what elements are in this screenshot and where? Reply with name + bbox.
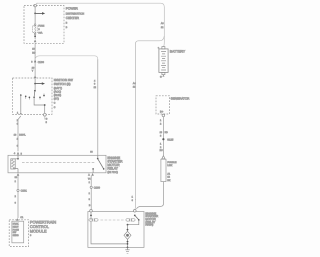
svg-text:8: 8 bbox=[31, 61, 33, 64]
svg-text:1: 1 bbox=[160, 143, 162, 146]
svg-text:1: 1 bbox=[89, 181, 91, 184]
label ENGINE STARTER MOTOR RELAY bbox=[107, 156, 123, 174]
label POWERTRAIN CONTROL MODULE bbox=[30, 220, 56, 238]
svg-text:(ST): (ST) bbox=[54, 98, 59, 101]
label IGNITION SWITCH bbox=[54, 78, 73, 109]
node junction with arrow bbox=[34, 82, 45, 85]
pin fusible link entry bbox=[162, 156, 165, 159]
svg-text:6: 6 bbox=[132, 199, 134, 202]
svg-text:G: G bbox=[160, 75, 162, 78]
svg-text:NEUT: NEUT bbox=[13, 225, 20, 228]
wire PDC to ignition switch bbox=[34, 43, 36, 76]
relay switch bbox=[90, 151, 104, 173]
wire feed down to relay contact bbox=[97, 59, 99, 155]
relay linkage bbox=[22, 162, 96, 164]
svg-text:LINK: LINK bbox=[167, 164, 172, 167]
svg-text:BATTERY: BATTERY bbox=[170, 49, 186, 53]
svg-text:3: 3 bbox=[38, 28, 40, 31]
svg-text:RD: RD bbox=[165, 131, 169, 134]
svg-text:DISTRIBUTION: DISTRIBUTION bbox=[66, 12, 84, 15]
svg-text:(BATT): (BATT) bbox=[54, 87, 62, 90]
wire fuse to PDC exit bbox=[34, 35, 36, 39]
node terminal circle PDC B+ bbox=[34, 4, 37, 7]
svg-text:1: 1 bbox=[15, 180, 17, 183]
wire to fuse bbox=[34, 13, 36, 23]
engine starter motor relay box bbox=[8, 155, 106, 173]
node connector C101 bbox=[17, 189, 19, 191]
svg-text:2: 2 bbox=[160, 146, 162, 149]
svg-text:C100: C100 bbox=[94, 187, 101, 190]
svg-text:GENERATOR: GENERATOR bbox=[171, 97, 191, 101]
svg-text:A1: A1 bbox=[167, 173, 170, 176]
node junction with arrow bbox=[34, 12, 45, 15]
svg-text:C101: C101 bbox=[21, 190, 28, 193]
wire contact ST to exit bbox=[20, 95, 22, 112]
switch blade bbox=[33, 91, 36, 97]
fuse F? bbox=[33, 24, 38, 35]
pin exit terminal left bbox=[20, 112, 22, 114]
svg-text:20: 20 bbox=[32, 66, 35, 69]
ground bbox=[125, 247, 129, 253]
starter switch blade bbox=[134, 215, 136, 217]
svg-text:SENS: SENS bbox=[13, 234, 19, 237]
switch contacts bbox=[25, 96, 27, 98]
svg-text:FUSIBLE: FUSIBLE bbox=[167, 161, 177, 164]
svg-text:2: 2 bbox=[15, 195, 17, 198]
node terminal circle exit bbox=[43, 113, 46, 116]
svg-text:8: 8 bbox=[30, 234, 32, 237]
wire generator to splice bbox=[162, 117, 164, 156]
node terminal circle generator bbox=[162, 114, 165, 117]
wire contact to C exit bbox=[34, 98, 45, 113]
svg-text:0: 0 bbox=[94, 83, 96, 86]
node connector C100 bbox=[34, 60, 36, 63]
wire solenoid return bbox=[91, 222, 128, 244]
pin entry terminal relay bbox=[17, 152, 20, 155]
wire PDC internal bbox=[34, 7, 36, 13]
svg-text:T4: T4 bbox=[88, 178, 91, 181]
svg-text:BK: BK bbox=[167, 179, 170, 182]
svg-text:1: 1 bbox=[160, 119, 162, 122]
svg-text:5: 5 bbox=[21, 152, 23, 155]
battery negative stub bbox=[162, 75, 164, 77]
svg-text:8: 8 bbox=[160, 135, 162, 138]
PCM pin block bbox=[12, 221, 24, 243]
powertrain control module box bbox=[9, 220, 28, 247]
svg-text:POWER: POWER bbox=[66, 7, 79, 11]
svg-text:5: 5 bbox=[46, 121, 48, 124]
svg-text:16: 16 bbox=[160, 131, 163, 134]
svg-text:A: A bbox=[88, 174, 90, 177]
svg-text:PARK: PARK bbox=[13, 223, 19, 226]
node splice S125 bbox=[162, 138, 164, 140]
svg-text:B: B bbox=[66, 22, 68, 25]
label PCM pin functions bbox=[13, 223, 20, 238]
wire ignition to relay bbox=[18, 116, 21, 151]
svg-text:CENTER: CENTER bbox=[66, 16, 80, 20]
wire relay to PCM bbox=[17, 176, 19, 218]
solenoid linkage bbox=[101, 219, 125, 221]
svg-text:POSN: POSN bbox=[13, 228, 20, 231]
node terminal circle B+ bbox=[134, 210, 137, 213]
solenoid contact windings bbox=[126, 218, 135, 222]
wire battery feed top bbox=[37, 3, 165, 46]
svg-text:B: B bbox=[89, 204, 91, 207]
svg-text:FUSE: FUSE bbox=[38, 25, 44, 28]
svg-text:12: 12 bbox=[94, 86, 97, 89]
ignition switch box bbox=[13, 78, 53, 114]
pin exit terminal PDC bbox=[34, 39, 37, 42]
node connector C100 starter feed bbox=[90, 186, 92, 188]
svg-text:HIGH): HIGH) bbox=[145, 223, 153, 227]
svg-text:C1: C1 bbox=[20, 216, 24, 219]
svg-text:12: 12 bbox=[161, 26, 164, 29]
generator box bbox=[156, 96, 170, 114]
wire long feed into starter bbox=[134, 199, 137, 209]
svg-text:MODULE: MODULE bbox=[30, 229, 47, 234]
svg-text:DB/YL: DB/YL bbox=[19, 134, 26, 137]
wire relay to starter solenoid bbox=[90, 176, 92, 210]
wire branch to relay contact bbox=[35, 56, 98, 60]
svg-text:4: 4 bbox=[14, 152, 16, 155]
svg-text:0: 0 bbox=[17, 122, 19, 125]
svg-text:4: 4 bbox=[94, 79, 96, 82]
svg-text:2: 2 bbox=[160, 123, 162, 126]
wire entry bbox=[34, 78, 36, 84]
svg-text:1: 1 bbox=[89, 192, 91, 195]
svg-text:RELAY: RELAY bbox=[107, 167, 118, 171]
fusible link bbox=[161, 159, 166, 181]
node junction dot bbox=[34, 35, 36, 37]
svg-text:SW: SW bbox=[13, 231, 17, 234]
svg-text:SWITCH (B): SWITCH (B) bbox=[54, 82, 71, 86]
motor M bbox=[124, 231, 131, 239]
label POWER DISTRIBUTION CENTER bbox=[66, 7, 84, 30]
svg-text:C100: C100 bbox=[38, 61, 45, 64]
svg-text:B: B bbox=[66, 26, 68, 29]
node terminal circle solenoid bbox=[90, 210, 93, 213]
svg-text:A0: A0 bbox=[161, 22, 164, 25]
pin exit relay contact bbox=[91, 173, 94, 176]
pin entry PCM bbox=[16, 218, 19, 221]
svg-text:30A: 30A bbox=[38, 31, 42, 34]
svg-text:BU: BU bbox=[160, 149, 163, 152]
wire to wiper bbox=[34, 84, 36, 91]
svg-text:2: 2 bbox=[17, 138, 19, 141]
power distribution center box bbox=[24, 6, 64, 44]
battery bbox=[159, 47, 168, 75]
svg-text:RD: RD bbox=[32, 51, 36, 54]
svg-text:(IN PDC): (IN PDC) bbox=[107, 171, 118, 174]
pin exit relay coil bbox=[17, 173, 20, 176]
svg-text:C: C bbox=[54, 101, 56, 104]
starter solenoid windings bbox=[89, 212, 98, 222]
svg-text:Y: Y bbox=[32, 70, 34, 73]
svg-text:86: 86 bbox=[90, 151, 93, 154]
label fuse value bbox=[38, 25, 44, 35]
wire fusible link to starter bbox=[137, 182, 164, 209]
svg-text:12: 12 bbox=[167, 176, 170, 179]
wire blade to motor bbox=[128, 221, 139, 225]
svg-text:C: C bbox=[54, 106, 56, 109]
svg-text:S125: S125 bbox=[167, 139, 174, 142]
svg-text:30: 30 bbox=[15, 176, 18, 179]
svg-text:G: G bbox=[46, 118, 48, 121]
relay coil bbox=[11, 155, 18, 173]
svg-text:8: 8 bbox=[89, 198, 91, 201]
pin entry terminal bbox=[34, 76, 37, 79]
svg-text:0: 0 bbox=[17, 145, 19, 148]
svg-text:1: 1 bbox=[132, 196, 134, 199]
wire branch battery to long starter feed bbox=[136, 36, 165, 200]
engine starter motor box bbox=[88, 212, 144, 248]
svg-text:B+: B+ bbox=[160, 111, 164, 114]
label ENGINE STARTER MOTOR bbox=[145, 211, 158, 226]
svg-text:0: 0 bbox=[15, 202, 17, 205]
wire motor return bbox=[127, 239, 129, 247]
svg-text:18: 18 bbox=[14, 134, 17, 137]
wire stub below circle bbox=[44, 116, 46, 119]
